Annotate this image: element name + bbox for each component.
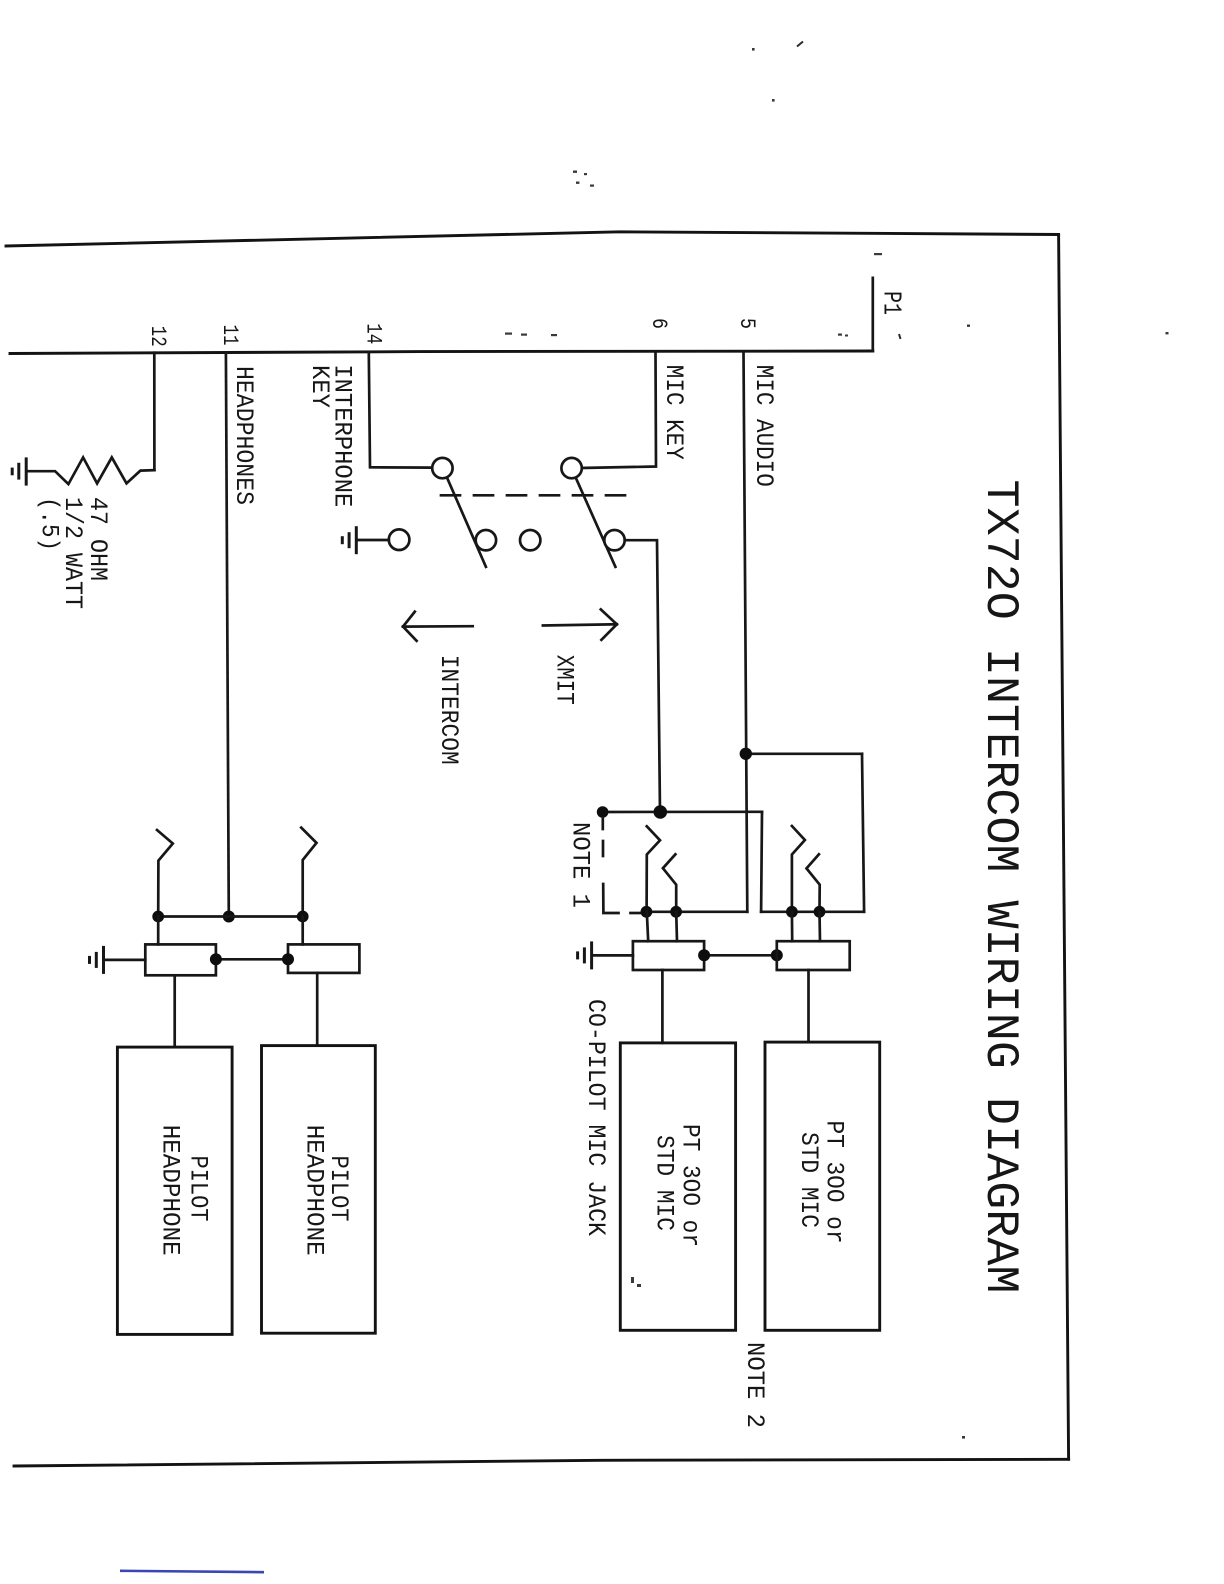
svg-text:STD MIC: STD MIC <box>794 1132 823 1228</box>
hp jack pins into bodies <box>157 917 160 945</box>
ground (hp jacks) stem <box>105 959 146 962</box>
left mic jack contact 1 <box>647 826 660 912</box>
right hp jack contact dot <box>297 911 309 923</box>
box left mic PT300 <box>620 1043 735 1330</box>
box right mic PT300 <box>765 1042 880 1330</box>
left mic jack pins into body <box>647 912 648 941</box>
dot left hp jack sleeve <box>210 953 222 965</box>
switch pole A circle <box>432 458 452 478</box>
ground (switch) <box>342 526 356 554</box>
scan tick <box>797 42 803 47</box>
wire mic audio branch horizontal <box>746 752 862 755</box>
pin 11 wire HEADPHONES <box>226 353 229 917</box>
switch S1 arm B <box>575 477 615 567</box>
pin 14 wire <box>369 352 432 467</box>
svg-text:PILOT: PILOT <box>184 1156 213 1222</box>
headphone bus junction dot <box>223 911 235 923</box>
border frame right <box>1059 235 1069 1460</box>
switch gang dashed link <box>441 494 630 497</box>
svg-text:(.5): (.5) <box>35 497 64 551</box>
right hp jack contact <box>301 828 316 917</box>
right mic jack body <box>777 941 850 970</box>
dot left mic jack sleeve <box>698 949 710 961</box>
left hp jack contact dot <box>152 911 164 923</box>
svg-text:INTERCOM: INTERCOM <box>434 655 463 765</box>
wire right jack bus <box>761 910 864 913</box>
right hp jack body <box>288 944 359 973</box>
dot right mic jack sleeve <box>771 949 783 961</box>
wire mic audio branch right vertical <box>862 754 864 912</box>
arrow XMIT <box>543 609 617 640</box>
left hp jack body <box>145 944 216 975</box>
svg-text:MIC AUDIO: MIC AUDIO <box>749 365 778 487</box>
wire right mic jack to box <box>807 970 810 1042</box>
NOTE 1 dashed link <box>603 819 641 913</box>
right mic jack pins into body <box>791 912 794 941</box>
wire right hp jack to box <box>316 973 319 1046</box>
svg-text:NOTE 1: NOTE 1 <box>566 822 595 908</box>
wire xmit net horizontal y812 <box>603 810 762 813</box>
connector P1 end stub <box>871 278 874 351</box>
wire pin5 to left jack <box>646 910 747 913</box>
box left pilot headphone <box>117 1047 232 1334</box>
scan specks <box>505 48 1169 1439</box>
wire throw B to jacks <box>625 540 660 812</box>
junction dot switch net <box>654 805 668 819</box>
left hp jack contact <box>157 830 173 917</box>
wire between hp jacks <box>216 958 288 961</box>
svg-text:KEY: KEY <box>305 365 334 408</box>
wire ground throw <box>358 539 389 542</box>
switch throw circle center <box>520 530 540 550</box>
right mic jack contact dots <box>786 906 798 918</box>
dot right hp jack sleeve <box>282 953 294 965</box>
pin 12 wire <box>153 353 156 470</box>
pin 6 wire MIC KEY <box>582 352 656 469</box>
wire riser x762 <box>760 812 764 912</box>
switch throw circle ground <box>389 529 410 550</box>
svg-text:XMIT: XMIT <box>549 655 578 705</box>
svg-text:TX72O INTERCOM WIRING DIAGRAM: TX72O INTERCOM WIRING DIAGRAM <box>974 480 1026 1294</box>
border frame bottom <box>14 1459 1069 1466</box>
svg-text:STD MIC: STD MIC <box>650 1135 679 1231</box>
svg-text:PT 3OO or: PT 3OO or <box>676 1124 705 1247</box>
connector P1 bus line <box>10 351 873 354</box>
pin 5 wire MIC AUDIO <box>744 352 748 912</box>
arrow INTERCOM <box>403 612 473 641</box>
left mic jack body <box>633 941 704 970</box>
resistor R1 47 ohm <box>27 457 154 484</box>
left mic jack contact 2 <box>663 854 676 912</box>
wire between mic jacks <box>704 954 777 957</box>
wire left hp jack to box <box>173 975 176 1047</box>
svg-text:HEADPHONE: HEADPHONE <box>300 1125 329 1256</box>
switch throw circle A <box>476 530 496 550</box>
wire left mic jack to box <box>661 970 664 1043</box>
ground (mic jacks) stem <box>593 954 633 957</box>
box right pilot headphone <box>262 1046 376 1334</box>
right mic jack contact 1 <box>792 826 805 912</box>
switch throw circle B <box>604 530 624 550</box>
svg-text:11: 11 <box>217 325 243 346</box>
headphone bus wire <box>158 915 303 918</box>
switch S1 arm A <box>447 477 486 567</box>
border frame top <box>6 232 1059 246</box>
svg-text:HEADPHONE: HEADPHONE <box>156 1125 185 1256</box>
svg-text:CO-PILOT MIC JACK: CO-PILOT MIC JACK <box>581 999 610 1236</box>
right mic jack contact 2 <box>807 854 820 912</box>
switch pole B circle <box>561 458 581 478</box>
junction dot mic audio <box>740 748 752 760</box>
blue pen mark <box>120 1571 264 1572</box>
svg-text:14: 14 <box>361 323 387 344</box>
svg-text:6: 6 <box>646 318 672 329</box>
ground (resistor) <box>12 457 26 485</box>
svg-text:5: 5 <box>734 318 760 329</box>
svg-text:MIC KEY: MIC KEY <box>659 365 688 460</box>
svg-text:HEADPHONES: HEADPHONES <box>229 366 258 505</box>
ground (hp jacks) <box>90 946 104 974</box>
node dot note1 attach <box>597 806 609 818</box>
svg-text:NOTE 2: NOTE 2 <box>740 1342 769 1428</box>
ground (mic jacks) <box>578 941 592 969</box>
svg-text:P1: P1 <box>876 291 906 315</box>
left mic jack contact dots <box>641 906 653 918</box>
svg-text:12: 12 <box>145 326 171 347</box>
